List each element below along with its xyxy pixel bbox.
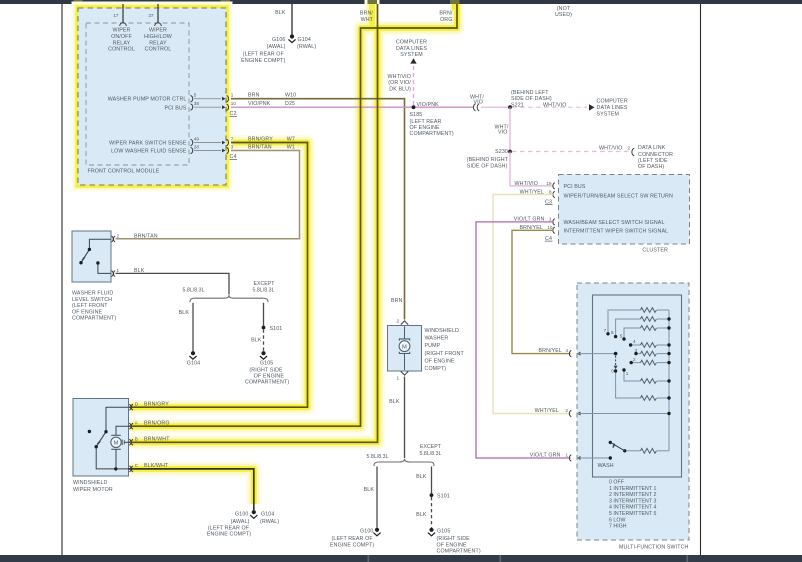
- connector C3 label (cluster): [545, 199, 553, 205]
- wire BRN W10 (FCM pin1 to washer pump): [231, 99, 405, 320]
- svg-text:G100: G100: [235, 511, 248, 517]
- svg-text:(BEHIND LEFT: (BEHIND LEFT: [511, 90, 549, 96]
- svg-text:B: B: [135, 437, 138, 442]
- svg-text:SYSTEM: SYSTEM: [400, 52, 423, 58]
- bottom window band: [0, 555, 802, 562]
- svg-text:BRN: BRN: [248, 93, 260, 99]
- svg-text:W7: W7: [287, 137, 295, 143]
- svg-text:(LEFT FRONT: (LEFT FRONT: [72, 303, 108, 309]
- resistor R2 row lead/contact 6 riser: [616, 319, 641, 335]
- svg-text:(NOT: (NOT: [557, 6, 571, 12]
- ground G105 (right side of engine compartment): [245, 351, 289, 386]
- pin 17 wire: [113, 4, 126, 26]
- svg-text:(RWAL): (RWAL): [297, 44, 316, 50]
- wiper motor pin B: [129, 437, 170, 446]
- svg-text:BRN/YEL: BRN/YEL: [538, 348, 562, 354]
- svg-text:2 INTERMITTENT 2: 2 INTERMITTENT 2: [609, 492, 656, 498]
- svg-text:1: 1: [231, 93, 234, 98]
- connector C4 label (cluster): [545, 236, 553, 242]
- svg-text:(AWAL): (AWAL): [267, 44, 286, 50]
- svg-text:2: 2: [627, 145, 630, 150]
- wiper motor pin D: [129, 401, 169, 410]
- svg-text:RELAY: RELAY: [149, 40, 167, 46]
- resistor R7 lead/contact 1 riser: [624, 370, 641, 381]
- svg-text:COMPARTMENT): COMPARTMENT): [245, 380, 289, 386]
- svg-text:COMPARTMENT): COMPARTMENT): [437, 549, 481, 555]
- ground G105 (right side of engine compartment, pump branch): [428, 528, 481, 555]
- svg-text:ENGINE COMPT): ENGINE COMPT): [330, 542, 374, 548]
- resistor R3 row lead/contact 5 riser: [624, 328, 641, 337]
- svg-text:7 HIGH: 7 HIGH: [609, 524, 627, 530]
- svg-text:1: 1: [626, 371, 629, 376]
- svg-text:BLK: BLK: [364, 487, 375, 493]
- windshield wiper motor box: [73, 399, 129, 477]
- wire WHT/VIO dashed (S221 to computer data lines right): [512, 102, 595, 110]
- svg-text:OF ENGINE: OF ENGINE: [254, 374, 285, 380]
- svg-text:WASHER PUMP MOTOR CTRL: WASHER PUMP MOTOR CTRL: [108, 97, 187, 103]
- svg-text:COMPUTER: COMPUTER: [597, 99, 628, 105]
- rotary contact number labels: [604, 328, 638, 376]
- svg-text:(OR VIO/: (OR VIO/: [388, 80, 411, 86]
- svg-text:COMPUTER: COMPUTER: [396, 40, 427, 46]
- svg-text:5.8L/8.3L: 5.8L/8.3L: [182, 287, 204, 293]
- svg-text:OF ENGINE: OF ENGINE: [72, 309, 103, 315]
- svg-text:LOW WASHER FLUID SENSE: LOW WASHER FLUID SENSE: [111, 148, 187, 154]
- svg-text:S185: S185: [410, 112, 423, 118]
- svg-text:BLK: BLK: [179, 310, 190, 316]
- label (NOT USED): [555, 6, 572, 18]
- svg-text:5 INTERMITTENT 5: 5 INTERMITTENT 5: [609, 511, 656, 517]
- ground G100/G104 (left rear of engine compt): [207, 510, 279, 537]
- wire WHT/VIO dashed up to computer data lines: [388, 58, 417, 105]
- svg-text:5.8L/8.3L: 5.8L/8.3L: [252, 287, 274, 293]
- connector C4 label: [230, 154, 238, 160]
- svg-text:W1: W1: [287, 145, 295, 151]
- svg-text:WIPER PARK SWITCH SENSE: WIPER PARK SWITCH SENSE: [109, 140, 187, 146]
- svg-text:19: 19: [546, 181, 552, 186]
- bus vertical: [668, 310, 670, 451]
- svg-text:M: M: [402, 344, 407, 350]
- svg-text:OF ENGINE: OF ENGINE: [437, 542, 468, 548]
- cluster pin 19: [515, 181, 586, 190]
- wiper motor pin A: [129, 420, 169, 429]
- svg-text:10: 10: [547, 225, 553, 230]
- label EXCEPT 5.8L/8.3L (pump right branch): [419, 444, 441, 457]
- svg-text:38: 38: [194, 101, 200, 106]
- svg-text:PCI BUS: PCI BUS: [564, 184, 586, 190]
- svg-text:ENGINE COMPT): ENGINE COMPT): [241, 58, 285, 64]
- resistor R4 lead: [631, 344, 641, 346]
- svg-text:BLK: BLK: [416, 474, 427, 480]
- label EXCEPT 5.8L/8.3L (right branch): [252, 281, 275, 293]
- multi-function switch box: [577, 283, 689, 540]
- svg-text:WIPER MOTOR: WIPER MOTOR: [73, 487, 113, 493]
- svg-text:5: 5: [194, 93, 197, 98]
- rotary contacts 0-7: [606, 332, 637, 373]
- svg-text:COMPARTMENT): COMPARTMENT): [72, 316, 116, 322]
- svg-text:3 INTERMITTENT 3: 3 INTERMITTENT 3: [609, 498, 656, 504]
- svg-text:4 INTERMITTENT 4: 4 INTERMITTENT 4: [609, 505, 656, 511]
- svg-text:SIDE OF DASH): SIDE OF DASH): [511, 96, 552, 102]
- svg-text:WINDSHIELD: WINDSHIELD: [425, 328, 460, 334]
- svg-text:HIGH/LOW: HIGH/LOW: [144, 34, 172, 40]
- svg-text:6 LOW: 6 LOW: [609, 517, 625, 523]
- svg-text:1 INTERMITTENT 1: 1 INTERMITTENT 1: [609, 486, 656, 492]
- resistor R6 lead: [631, 362, 640, 364]
- FCM pin 5 internal: [191, 93, 234, 102]
- wire BLK (right branch to S101): [263, 303, 265, 326]
- wire BLK (pump pin 1 down to split): [389, 377, 404, 459]
- wire BRN/YEL (cluster pin 10 to MFS pin 4): [512, 230, 571, 353]
- FCM pin 38 internal: [191, 101, 237, 110]
- svg-text:WHT/VIO: WHT/VIO: [388, 74, 412, 80]
- svg-text:(RWAL): (RWAL): [260, 519, 279, 525]
- washer pump motor symbol: [399, 326, 410, 370]
- svg-text:PUMP: PUMP: [425, 343, 441, 349]
- washer fluid level switch label: [72, 291, 116, 322]
- wire WHT/VIO dashed (S230 to data link connector): [512, 145, 634, 156]
- svg-text:S101: S101: [270, 326, 283, 332]
- svg-text:PCI BUS: PCI BUS: [164, 106, 186, 112]
- svg-text:SIDE OF DASH): SIDE OF DASH): [467, 163, 508, 169]
- svg-text:WHT/YEL: WHT/YEL: [535, 408, 559, 414]
- svg-text:(RIGHT SIDE: (RIGHT SIDE: [249, 367, 283, 373]
- wire BLK (pump right branch to S101): [416, 467, 431, 494]
- svg-text:WHT/VIO: WHT/VIO: [543, 102, 567, 108]
- cluster pin 8: [520, 190, 673, 200]
- svg-text:6: 6: [611, 330, 614, 335]
- svg-text:0: 0: [611, 369, 614, 374]
- svg-text:0 OFF: 0 OFF: [609, 480, 624, 486]
- svg-text:RELAY: RELAY: [113, 40, 131, 46]
- svg-text:ENGINE COMPT): ENGINE COMPT): [207, 532, 251, 538]
- svg-text:2: 2: [565, 408, 568, 413]
- svg-text:G100: G100: [360, 528, 373, 534]
- engine-option split brace (washer fluid switch ground): [190, 295, 268, 302]
- svg-text:DATA LINK: DATA LINK: [638, 145, 666, 151]
- svg-text:VIO: VIO: [498, 130, 508, 136]
- wiper motor label: [73, 480, 113, 493]
- svg-text:10: 10: [231, 101, 237, 106]
- svg-text:BRN: BRN: [391, 298, 403, 304]
- svg-text:CONTROL: CONTROL: [108, 47, 135, 53]
- svg-text:VIO/PNK: VIO/PNK: [417, 102, 440, 108]
- svg-text:3: 3: [635, 348, 638, 353]
- svg-text:COMPARTMENT): COMPARTMENT): [410, 131, 454, 137]
- wire pin4 to rotary pole: [577, 353, 616, 355]
- svg-text:BLK: BLK: [416, 512, 427, 518]
- frame line right: [700, 4, 702, 555]
- wire WHT/YEL (cluster pin 8 to MFS pin 2): [493, 195, 571, 414]
- FCM internal labels: [108, 28, 187, 155]
- svg-text:CONNECTOR: CONNECTOR: [638, 152, 673, 158]
- rotary switch pole and arm: [614, 352, 618, 369]
- svg-text:FRONT CONTROL MODULE: FRONT CONTROL MODULE: [88, 169, 160, 175]
- svg-text:USED): USED): [555, 12, 572, 18]
- resistor zigzags: [641, 308, 657, 454]
- svg-text:1: 1: [396, 376, 399, 381]
- svg-text:1: 1: [117, 268, 120, 273]
- MFS internal circuit: [577, 310, 669, 458]
- wire BLK/WHT (motor pin C to ground, highlighted): [129, 469, 254, 510]
- svg-text:BRN/TAN: BRN/TAN: [248, 145, 272, 151]
- svg-text:(RIGHT SIDE: (RIGHT SIDE: [437, 536, 471, 542]
- svg-text:(LEFT REAR OF: (LEFT REAR OF: [208, 525, 250, 531]
- wire WHT/VIO (S221 down to S230): [494, 107, 510, 151]
- washer fluid level switch pin 1: [112, 268, 145, 277]
- svg-text:2: 2: [117, 233, 120, 238]
- svg-text:DATA LINES: DATA LINES: [597, 105, 628, 111]
- svg-text:MULTI-FUNCTION SWITCH: MULTI-FUNCTION SWITCH: [619, 544, 689, 550]
- MFS pin 1: [530, 452, 581, 461]
- cluster pin 1: [514, 217, 665, 227]
- wiper motor internal park switch: [96, 407, 128, 469]
- svg-text:(LEFT REAR OF: (LEFT REAR OF: [332, 536, 374, 542]
- cluster pin 10: [519, 225, 668, 234]
- MFS pin 2: [535, 408, 581, 417]
- multi-function switch inner box: [593, 295, 682, 477]
- data link connector label: [638, 145, 673, 170]
- svg-text:ORG: ORG: [440, 17, 452, 23]
- washer fluid level switch contacts: [81, 239, 111, 273]
- top window band: [0, 0, 802, 4]
- svg-text:ON/OFF: ON/OFF: [111, 34, 132, 40]
- svg-text:G105: G105: [437, 528, 450, 534]
- svg-text:WASHER FLUID: WASHER FLUID: [72, 291, 113, 297]
- cluster box: [559, 175, 690, 245]
- svg-text:37: 37: [148, 13, 154, 18]
- svg-text:BRN/TAN: BRN/TAN: [134, 233, 158, 239]
- svg-text:G104: G104: [187, 360, 200, 366]
- svg-text:G106: G106: [272, 37, 285, 43]
- wire BRN/WHT (motor pin B up to top, highlighted): [129, 4, 378, 442]
- svg-text:EXCEPT: EXCEPT: [420, 444, 442, 450]
- washer pump pin 2: [396, 318, 408, 324]
- ground G100 (left rear of engine compt): [330, 528, 381, 549]
- connector C2 label: [230, 111, 238, 117]
- wash switch: [598, 441, 627, 469]
- splice S101 (pump branch): [430, 493, 450, 499]
- svg-text:7: 7: [604, 328, 607, 333]
- svg-text:WIPER: WIPER: [113, 28, 131, 34]
- svg-text:COMPT): COMPT): [425, 366, 447, 372]
- wire BLK (pump left branch to G100): [364, 467, 377, 528]
- splice S185: [410, 102, 454, 137]
- wiper motor pin C: [129, 463, 169, 472]
- wire BRN/GRY W7 (FCM pin7 to wiper motor pin D, highlighted): [129, 143, 308, 408]
- svg-text:WHT/VIO: WHT/VIO: [515, 181, 539, 187]
- wire BRN W10 labels: [248, 93, 296, 99]
- wire BLK dashed (S101 to G105, pump branch): [416, 497, 431, 528]
- bus junction dots: [667, 317, 670, 415]
- wire BLK dashed (S101 to G105): [251, 329, 263, 351]
- svg-text:WHT: WHT: [361, 17, 374, 23]
- wire pin2 row to bus: [577, 413, 669, 415]
- svg-text:(LEFT SIDE: (LEFT SIDE: [638, 158, 668, 164]
- svg-text:D25: D25: [285, 101, 295, 107]
- wire BRN/GRY W7 labels: [248, 137, 295, 143]
- svg-text:WIPER/TURN/BEAM SELECT SW RETU: WIPER/TURN/BEAM SELECT SW RETURN: [564, 194, 673, 200]
- washer fluid level switch box: [72, 231, 111, 282]
- svg-text:28: 28: [194, 145, 200, 150]
- node computer data lines system (right): [597, 99, 628, 118]
- svg-text:DATA LINES: DATA LINES: [396, 46, 427, 52]
- wire BLK (switch pin 1 to split): [116, 273, 230, 294]
- ground G104: [187, 351, 200, 366]
- svg-text:7: 7: [231, 137, 234, 142]
- svg-text:(BEHIND RIGHT: (BEHIND RIGHT: [467, 157, 509, 163]
- wire BRN/TAN W1 labels: [248, 145, 295, 151]
- MFS pin 4: [538, 348, 580, 357]
- label BRN/WHT (top): [360, 11, 374, 24]
- FCM pin 28 internal: [191, 145, 234, 154]
- FCM inner dashed connector box: [86, 23, 189, 165]
- resistor right leads: [657, 309, 669, 311]
- svg-text:VIO/LT GRN: VIO/LT GRN: [530, 452, 561, 458]
- svg-text:S230: S230: [495, 149, 508, 155]
- wash resistor leads: [625, 450, 641, 452]
- pin 37 wire: [148, 4, 161, 26]
- svg-text:17: 17: [113, 13, 119, 18]
- washer fluid level switch pin 2: [112, 233, 158, 242]
- svg-text:BRN/GRY: BRN/GRY: [248, 137, 273, 143]
- svg-text:WASHER: WASHER: [425, 336, 449, 342]
- svg-text:(LEFT REAR OF: (LEFT REAR OF: [243, 51, 285, 57]
- frame line left: [61, 4, 63, 555]
- svg-text:VIO/PNK: VIO/PNK: [248, 101, 271, 107]
- washer pump pin 1: [396, 371, 408, 380]
- svg-text:BLK: BLK: [389, 399, 400, 405]
- svg-text:S101: S101: [437, 493, 450, 499]
- wire VIO/PNK D25 (FCM pin10 to S185 and connector): [231, 106, 474, 108]
- svg-text:BRN/: BRN/: [439, 11, 453, 17]
- FCM pin 49 internal: [191, 137, 234, 146]
- wire BLK (left branch to G104): [179, 303, 193, 352]
- svg-text:49: 49: [194, 137, 200, 142]
- wire VIO/LT GRN (cluster pin 1 to MFS pin 1): [476, 222, 571, 458]
- node computer data lines system (top): [396, 40, 427, 59]
- svg-text:WASH/BEAM SELECT SWITCH SIGNAL: WASH/BEAM SELECT SWITCH SIGNAL: [564, 220, 665, 226]
- svg-text:WASH: WASH: [598, 463, 614, 469]
- svg-text:5.8L/8.3L: 5.8L/8.3L: [366, 454, 388, 460]
- svg-text:1: 1: [549, 217, 552, 222]
- inline connector (VIO/PNK to WHT/VIO): [470, 94, 484, 111]
- svg-text:5: 5: [620, 334, 623, 339]
- svg-text:1: 1: [565, 452, 568, 457]
- windshield washer pump box: [388, 326, 422, 372]
- svg-text:G105: G105: [260, 360, 273, 366]
- wire BRN/TAN W1 (FCM pin3 to washer fluid level switch pin 2): [116, 151, 300, 239]
- svg-text:3: 3: [231, 145, 234, 150]
- splice S101: [262, 326, 283, 332]
- svg-text:4: 4: [565, 348, 568, 353]
- svg-text:VIO: VIO: [474, 100, 484, 106]
- label BRN/ORG (top): [439, 11, 453, 24]
- svg-text:LEVEL SWITCH: LEVEL SWITCH: [72, 297, 112, 303]
- svg-text:2: 2: [396, 318, 399, 323]
- wire BRN/ORG (motor pin A up to top, highlighted): [129, 4, 458, 426]
- svg-text:OF DASH): OF DASH): [638, 164, 664, 170]
- engine-option split brace (washer pump ground): [374, 459, 434, 466]
- highlighter crossing top band: [74, 0, 460, 4]
- svg-text:4: 4: [633, 339, 636, 344]
- svg-text:2: 2: [633, 357, 636, 362]
- svg-text:INTERMITTENT WIPER SWITCH SIGN: INTERMITTENT WIPER SWITCH SIGNAL: [564, 228, 669, 234]
- svg-text:CONTROL: CONTROL: [145, 47, 172, 53]
- wire pin1 to wash contact: [577, 457, 610, 459]
- MFS position legend: [609, 480, 656, 530]
- wire VIO/PNK D25 labels: [248, 101, 295, 107]
- svg-text:OF ENGINE: OF ENGINE: [410, 125, 441, 131]
- svg-text:BLK: BLK: [275, 10, 286, 16]
- svg-text:BRN/: BRN/: [360, 11, 374, 17]
- ground G106/G104 (left rear of engine compt): [241, 34, 316, 64]
- splice S230: [467, 149, 512, 169]
- washer pump label: [425, 328, 465, 372]
- svg-text:DK BLU): DK BLU): [389, 86, 411, 92]
- svg-text:SYSTEM: SYSTEM: [597, 112, 620, 118]
- wire WHT/VIO (connector to S221): [481, 106, 510, 108]
- resistor R1 row lead/contact 7 riser: [608, 310, 641, 332]
- svg-text:M: M: [114, 440, 119, 446]
- svg-text:G104: G104: [261, 511, 274, 517]
- svg-text:G104: G104: [298, 37, 311, 43]
- svg-text:BLK: BLK: [251, 337, 262, 343]
- wiper motor M1 symbol: [111, 435, 125, 449]
- svg-text:BRN/GRY: BRN/GRY: [144, 401, 169, 407]
- svg-text:WINDSHIELD: WINDSHIELD: [73, 480, 108, 486]
- svg-text:CLUSTER: CLUSTER: [642, 247, 668, 253]
- yellow highlighter glow under highlighted wires: [130, 0, 457, 504]
- svg-text:(RIGHT FRONT: (RIGHT FRONT: [425, 351, 465, 357]
- wire BLK (top, to ground G106/G104): [275, 4, 292, 35]
- resistor R5 lead: [636, 353, 641, 355]
- svg-text:(AWAL): (AWAL): [231, 519, 250, 525]
- svg-text:WHT/VIO: WHT/VIO: [599, 145, 623, 151]
- front control module FCM box (yellow highlighted dashed border): [78, 8, 226, 185]
- svg-text:OF ENGINE: OF ENGINE: [425, 358, 456, 364]
- svg-text:5.8L/8.3L: 5.8L/8.3L: [419, 451, 441, 457]
- wire WHT/VIO (S230 to cluster pin 19): [510, 152, 553, 186]
- svg-text:W10: W10: [285, 93, 296, 99]
- splice S221: [508, 90, 552, 109]
- svg-text:WIPER: WIPER: [149, 28, 167, 34]
- resistor R8 lead/contact 0 riser: [616, 373, 641, 398]
- svg-text:EXCEPT: EXCEPT: [253, 281, 275, 287]
